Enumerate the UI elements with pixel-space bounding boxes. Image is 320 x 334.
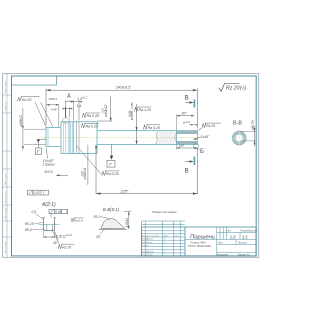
centerline (38, 136, 205, 138)
local section hatch (155, 131, 176, 144)
svg-text:Подп. и дата: Подп. и дата (5, 173, 7, 185)
dimension 20 over shoulder (46, 97, 58, 127)
title block small captions (142, 234, 180, 256)
svg-text:-0,25: -0,25 (102, 107, 105, 113)
svg-text:М8-7Н: М8-7Н (251, 120, 255, 130)
roughness Rz 20 left with leaders (18, 96, 54, 127)
datum A on axis (35, 139, 46, 154)
tolerance frame bottom left (28, 190, 49, 195)
svg-text:1,6: 1,6 (230, 235, 236, 240)
svg-text:+0,12: +0,12 (66, 235, 73, 237)
datum B under shaft (107, 145, 115, 168)
svg-text:Б-Б(5:1): Б-Б(5:1) (103, 207, 120, 212)
svg-text:R0,4: R0,4 (25, 228, 32, 232)
thread depth dim 20 (177, 112, 195, 131)
title block main rect (142, 227, 257, 256)
svg-text:Масштаб: Масштаб (248, 230, 259, 232)
detail A groove profile (39, 218, 60, 231)
svg-text:В-В: В-В (233, 120, 242, 126)
detail B-B radius label (94, 215, 109, 219)
svg-text:1×45°: 1×45° (51, 108, 58, 112)
threaded bore at right end (174, 131, 197, 144)
detail A roughness Ra 0.4 (71, 218, 84, 223)
title block texts (188, 230, 258, 256)
detail B-B angle 30 (96, 229, 106, 239)
roughness Rz20 at end face (198, 123, 221, 131)
svg-text:Листов 1: Листов 1 (238, 243, 248, 245)
chamfer 2x45 (193, 135, 210, 140)
bottom dimension 225 (81, 145, 197, 195)
left diameter dimension o24 (19, 108, 46, 150)
dimension 1.4 second (63, 107, 73, 117)
roughness Ra 0.25 lower (81, 123, 99, 129)
thread length dim 16 (177, 144, 198, 150)
svg-text:0,08: 0,08 (55, 210, 61, 214)
groove extension lines dark (74, 122, 79, 154)
svg-text:Ra 0,25: Ra 0,25 (86, 125, 99, 129)
svg-text:Ra 0,4: Ra 0,4 (74, 218, 83, 222)
general roughness mark Rz 20 (219, 83, 247, 91)
svg-text:5×0,5: 5×0,5 (45, 170, 53, 174)
svg-text:ø24h12: ø24h12 (19, 115, 23, 127)
shaft big section (piston body) (61, 122, 97, 154)
left margin column lines (3, 74, 12, 258)
title block right grid (185, 227, 256, 256)
top-left designation stamp box (12, 76, 57, 85)
svg-text:Г: Г (66, 210, 68, 214)
svg-text:Ra 0,25: Ra 0,25 (148, 126, 161, 130)
detail callout A on groove (63, 93, 73, 123)
svg-text:243±0,5: 243±0,5 (115, 84, 131, 89)
dimension 1.4+0.1 (71, 100, 83, 120)
svg-text:В: В (185, 168, 189, 175)
svg-text:Rz 20: Rz 20 (22, 98, 31, 102)
svg-text:(√): (√) (240, 84, 246, 91)
svg-text:А: А (67, 93, 71, 99)
svg-text:5,2h12: 5,2h12 (56, 234, 66, 238)
section view B-B (231, 120, 256, 147)
end chamfer lines (196, 131, 198, 145)
svg-text:Справ. №: Справ. № (4, 102, 7, 111)
dim 6+0.3 (183, 121, 197, 125)
svg-text:+0,3: +0,3 (185, 121, 190, 124)
svg-text:20±0,1: 20±0,1 (48, 97, 58, 101)
svg-text:А(2:1): А(2:1) (41, 202, 56, 208)
svg-text:Козлов: Козлов (146, 255, 153, 257)
overall dimension 243 (46, 89, 197, 129)
svg-text:45°: 45° (53, 241, 59, 245)
piston ring groove lines (63, 122, 69, 154)
svg-text:Иванов: Иванов (146, 239, 153, 241)
vertical dim o40 with rotated text (97, 97, 112, 122)
svg-text:1,4: 1,4 (77, 104, 82, 108)
detail B-B height dim (124, 211, 132, 229)
svg-text:-0,62: -0,62 (81, 170, 84, 176)
svg-text:Лит.: Лит. (227, 230, 232, 232)
shaft thin section (97, 131, 198, 145)
svg-text:16*: 16* (179, 144, 185, 148)
inner drawing frame (12, 76, 257, 256)
svg-text:Rz 20: Rz 20 (226, 85, 240, 91)
svg-text:Ra 0,25: Ra 0,25 (87, 114, 100, 118)
svg-text:2×45°: 2×45° (200, 135, 211, 139)
roughness Ra 0.25 below with leader (76, 146, 119, 176)
svg-text:+0,1: +0,1 (82, 96, 88, 100)
svg-text:Копировал: Копировал (217, 255, 229, 257)
detail A tolerance frame (49, 209, 68, 217)
detail A dim 5.2 (44, 231, 73, 238)
chamfer note 1.6x45 2 chamfers (42, 148, 55, 167)
dim 5x0.5 (45, 170, 69, 176)
svg-text:Инв. № дубл.: Инв. № дубл. (4, 207, 7, 219)
detail A 45 deg chamfer (52, 231, 58, 245)
svg-text:R0,25: R0,25 (25, 222, 34, 226)
svg-text:Перв. примен.: Перв. примен. (5, 80, 7, 93)
svg-text:0,02: 0,02 (33, 191, 40, 195)
svg-text:Ra 1,25: Ra 1,25 (139, 108, 152, 112)
svg-text:Ra 0,25: Ra 0,25 (106, 172, 119, 176)
svg-text:-0,016: -0,016 (128, 110, 131, 117)
section B cut line bottom (185, 157, 195, 175)
svg-text:-0,059: -0,059 (131, 102, 134, 109)
svg-text:Подп.: Подп. (163, 235, 169, 237)
detail A radius labels (25, 210, 45, 232)
svg-text:1:1: 1:1 (242, 235, 248, 240)
vertical dim o8 thin section (128, 102, 137, 145)
svg-text:Б: Б (200, 149, 204, 155)
detail callout B circle (193, 144, 204, 155)
sheet outer border (3, 74, 259, 258)
svg-text:Лист: Лист (146, 235, 150, 237)
svg-text:30°: 30° (96, 235, 102, 239)
roughness Ra 0.25 upper (82, 113, 100, 119)
svg-text:Инв. № подл.: Инв. № подл. (4, 241, 7, 253)
svg-text:ГОСТ 4543-2016: ГОСТ 4543-2016 (188, 244, 211, 248)
svg-text:2 фаски: 2 фаски (42, 163, 55, 167)
detail A roughness Rz20 (55, 232, 74, 249)
svg-text:Формат А3: Формат А3 (238, 254, 250, 257)
svg-text:В: В (185, 95, 189, 102)
shaft left shoulder (46, 128, 61, 147)
svg-text:4,8h11: 4,8h11 (125, 218, 129, 228)
svg-text:*Размеры для справок: *Размеры для справок (152, 211, 178, 214)
svg-text:Rz 20: Rz 20 (62, 245, 71, 249)
roughness Ra 1.25 above thin (134, 107, 151, 113)
roughness Ra 0.25 on thin right (143, 124, 160, 130)
svg-text:Сидоров: Сидоров (146, 251, 154, 253)
svg-text:0,5: 0,5 (32, 210, 37, 214)
svg-text:Петров: Петров (146, 242, 153, 244)
svg-text:20*: 20* (181, 112, 188, 116)
left margin rotated captions (4, 80, 7, 253)
svg-text:R0,1: R0,1 (94, 215, 101, 219)
svg-text:Т.контр.: Т.контр. (142, 245, 150, 247)
svg-text:№ докум.: № докум. (151, 234, 160, 237)
svg-text:225*: 225* (120, 190, 129, 194)
section B cut line top (185, 95, 195, 108)
title block left sub-table (142, 221, 186, 256)
detail B-B thread profile (99, 219, 128, 230)
svg-text:Rz 20: Rz 20 (206, 124, 215, 128)
svg-text:Взам. инв. №: Взам. инв. № (4, 191, 7, 203)
